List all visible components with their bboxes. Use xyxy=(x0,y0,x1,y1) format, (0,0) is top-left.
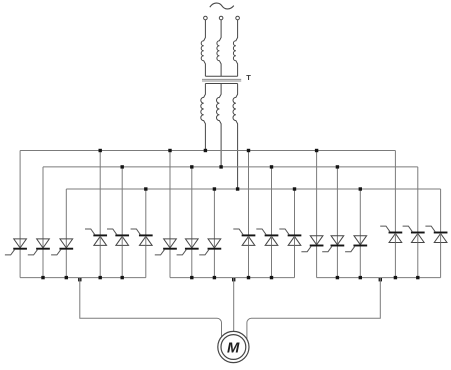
svg-text:T: T xyxy=(246,73,251,82)
svg-text:M: M xyxy=(227,340,240,356)
